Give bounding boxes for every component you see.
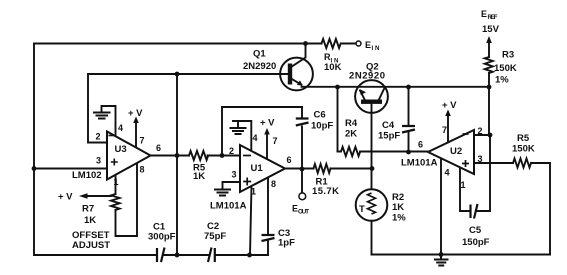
wire Q1 collector (292, 44, 306, 67)
svg-text:R5: R5 (517, 133, 530, 144)
svg-text:1pF: 1pF (278, 238, 295, 249)
wire U1 output to R1 and beyond (285, 168, 372, 170)
svg-text:OUT: OUT (298, 209, 309, 216)
op-amp U3 minus symbol (109, 135, 114, 137)
svg-text:8: 8 (140, 165, 145, 175)
ground symbol U3 (94, 113, 110, 119)
capacitor C1 plates (157, 248, 165, 263)
wire U3 feedback box top to Q1 base (88, 73, 289, 75)
op-amp U3 triangle (107, 132, 151, 180)
wire U3 pin4 to ground (102, 106, 116, 139)
wire R4 branch: vertical then zigzag then to U2 (337, 87, 339, 152)
node dot emitter rail R3 (487, 85, 492, 90)
svg-text:Q1: Q1 (253, 49, 266, 60)
terminal E_OUT circle (299, 193, 306, 200)
thermistor R2 zigzag (368, 193, 376, 214)
wire R7 bottom to U3 pin8 (116, 163, 138, 236)
node dot top of x177 vertical (175, 72, 180, 77)
wire vertical x=177 (U3 output to top line and bottom rail) (176, 74, 178, 255)
wire E_OUT stub (301, 169, 303, 193)
svg-text:E: E (365, 40, 371, 50)
svg-text:+ V: + V (58, 192, 73, 203)
svg-text:2: 2 (229, 146, 234, 156)
wire U2 pin7 +V stem (447, 115, 449, 143)
wire U2 pin2 (474, 134, 490, 136)
svg-text:4: 4 (118, 123, 123, 133)
node dot left frame pin3 U3 (32, 166, 37, 171)
wire bottom-right ground rail (372, 254, 551, 256)
svg-text:R3: R3 (502, 50, 514, 61)
node dot U1 box corner input (220, 153, 225, 158)
wire U3 pin7 +V stem (135, 122, 137, 149)
capacitor C6 plates (296, 119, 309, 126)
resistor R4 zigzag (338, 147, 361, 156)
wire U1 pin3 to ground (223, 178, 241, 188)
svg-text:R7: R7 (82, 204, 94, 215)
transistor Q2 circle (355, 80, 388, 113)
svg-text:R4: R4 (345, 118, 358, 129)
resistor R3 zigzag vertical (485, 57, 493, 73)
svg-text:LM101A: LM101A (210, 201, 247, 212)
capacitor C4 plates (402, 126, 415, 133)
svg-text:15V: 15V (482, 24, 500, 35)
svg-text:2: 2 (478, 126, 483, 136)
svg-text:300pF: 300pF (148, 232, 176, 243)
wire left frame vertical (33, 44, 35, 256)
node dot emitter rail R4 (335, 85, 340, 90)
wire top input line (34, 43, 322, 45)
svg-text:T: T (359, 204, 365, 215)
wire U3 box left down to pin2 (88, 74, 107, 143)
wire U1 pin8 through C3 to rail (267, 177, 269, 255)
svg-text:150K: 150K (494, 63, 517, 74)
svg-text:10pF: 10pF (311, 121, 333, 132)
capacitor C3 plates (262, 235, 275, 241)
svg-text:+ V: + V (260, 118, 275, 129)
transistor Q1 base bar (288, 64, 292, 85)
node dot U2 pin2 R3 vertical (488, 133, 493, 138)
svg-text:15.7K: 15.7K (312, 186, 339, 197)
svg-text:1%: 1% (392, 213, 406, 224)
svg-text:10K: 10K (324, 62, 342, 73)
node dot R4 line C4 (406, 150, 411, 155)
svg-text:REF: REF (488, 14, 498, 21)
svg-text:6: 6 (156, 143, 161, 153)
svg-text:1: 1 (114, 177, 119, 187)
transistor Q1 emitter arrowhead (297, 80, 303, 85)
op-amp U2 minus symbol (463, 133, 469, 135)
svg-text:1K: 1K (193, 171, 205, 182)
wire R_IN to E_IN terminal (341, 43, 355, 45)
wire U2 pin3 through R5 to right frame (474, 163, 550, 255)
wire U1 box top and left (222, 107, 302, 156)
svg-text:ADJUST: ADJUST (72, 240, 110, 251)
wire U2 pin4 to ground rail (440, 159, 442, 255)
svg-text:C5: C5 (469, 225, 482, 236)
resistor R5 150K zigzag (513, 159, 531, 168)
svg-text:4: 4 (445, 168, 450, 178)
op-amp U1 triangle (240, 145, 285, 192)
capacitor C5 plates (471, 204, 478, 219)
node dot bottom rail pin1 U1 (247, 253, 252, 258)
terminal E_IN circle (356, 41, 361, 46)
svg-text:150K: 150K (512, 144, 535, 155)
wire E_REF arrow stem to R3 (488, 42, 490, 57)
transistor Q1 circle (280, 58, 313, 91)
ground symbol U1 pin4 (231, 128, 246, 134)
svg-text:1K: 1K (392, 202, 404, 213)
wire R3 down through nodes to C5 corner (477, 73, 490, 211)
svg-text:1%: 1% (495, 75, 509, 86)
svg-text:3: 3 (232, 170, 237, 180)
svg-text:U2: U2 (450, 146, 462, 157)
wire C5 left side to U2 pin1 (460, 168, 470, 211)
svg-text:8: 8 (271, 179, 276, 189)
op-amp U1 minus symbol (243, 155, 251, 157)
svg-text:IN: IN (372, 45, 381, 52)
wire thermistor bottom (371, 221, 373, 255)
arrow +V above U1 pin7 (264, 128, 270, 135)
svg-text:LM101A: LM101A (401, 158, 438, 169)
svg-text:2: 2 (96, 132, 101, 142)
svg-text:E: E (481, 9, 487, 19)
svg-text:U3: U3 (115, 144, 127, 155)
wire R7 wiper arm (86, 195, 111, 197)
svg-text:15pF: 15pF (378, 131, 400, 142)
wire R4 to U2 vertex (360, 151, 427, 153)
thermistor R2 circle (356, 189, 388, 221)
op-amp U1 plus symbol (243, 178, 251, 186)
wire U3 pin3 to left frame (34, 168, 107, 170)
node dot bottom rail x177 (175, 253, 180, 258)
wire Q2 collector diagonal (379, 88, 385, 100)
resistor R1 zigzag (314, 164, 331, 173)
svg-text:2N2920: 2N2920 (349, 71, 385, 82)
wire U1 pin1 to rail node (250, 186, 252, 256)
svg-text:C4: C4 (382, 120, 395, 131)
svg-text:LM102: LM102 (72, 170, 102, 181)
svg-text:6: 6 (287, 155, 292, 165)
svg-text:4: 4 (253, 133, 258, 143)
wire U3 output line (151, 155, 241, 157)
arrow E_REF above R3 (486, 36, 492, 43)
svg-text:75pF: 75pF (204, 231, 226, 242)
svg-text:1K: 1K (84, 215, 96, 226)
wire Q2 emitter diagonal (360, 91, 365, 100)
resistor R5 1K zigzag (189, 151, 208, 160)
node dot ground rail U2 pin4 (439, 252, 444, 257)
wire emitter rail to R3 vertical (302, 86, 490, 88)
svg-text:+ V: + V (128, 108, 143, 119)
node dot emitter rail C4 (406, 85, 411, 90)
svg-text:C6: C6 (314, 110, 326, 121)
svg-text:7: 7 (442, 125, 447, 135)
wire C6 branch (301, 107, 303, 169)
node dot R1 Q2 base (370, 166, 375, 171)
svg-text:1: 1 (251, 187, 256, 197)
node dot U3 output x177 (175, 153, 180, 158)
wire bottom-left rail segments (34, 254, 268, 256)
svg-text:1: 1 (461, 180, 466, 190)
svg-text:150pF: 150pF (462, 237, 490, 248)
svg-text:2N2920: 2N2920 (243, 61, 276, 72)
wire Q2 base down through crossing to R1 node (371, 104, 373, 190)
op-amp U2 triangle (points left) (428, 130, 474, 174)
svg-text:7: 7 (140, 136, 145, 146)
wire U3 pin1 to R7 (115, 175, 117, 195)
arrow R7 wiper pointing left (79, 193, 88, 199)
svg-text:3: 3 (96, 156, 101, 166)
node dot U1 output E_OUT (300, 167, 305, 172)
wire U1 pin7 +V stem (266, 134, 268, 159)
transistor Q2 emitter arrowhead (360, 89, 367, 95)
ground symbol bottom rail (435, 255, 448, 266)
svg-text:3: 3 (478, 154, 483, 164)
op-amp U3 plus symbol (111, 159, 118, 166)
wire C4 branch (408, 87, 410, 152)
wire Q1 emitter diagonal (292, 79, 302, 85)
svg-text:2K: 2K (345, 129, 357, 140)
svg-text:7: 7 (273, 136, 278, 146)
svg-text:+ V: + V (442, 100, 457, 111)
arrow +V above U3 pin7 (133, 117, 139, 124)
transistor Q2 base bar (361, 100, 382, 104)
op-amp U2 plus symbol (462, 160, 469, 167)
resistor R7 zigzag vertical (111, 194, 120, 210)
svg-text:6: 6 (418, 140, 423, 150)
ground symbol U1 pin3 (215, 190, 230, 196)
resistor R_IN zigzag (322, 39, 341, 48)
node dot Q1 collector top line (303, 41, 308, 46)
svg-text:U1: U1 (251, 163, 264, 174)
arrow +V above U2 pin7 (445, 110, 451, 117)
capacitor C2 plates (208, 248, 215, 263)
wire U1 pin4 to ground (233, 121, 251, 151)
